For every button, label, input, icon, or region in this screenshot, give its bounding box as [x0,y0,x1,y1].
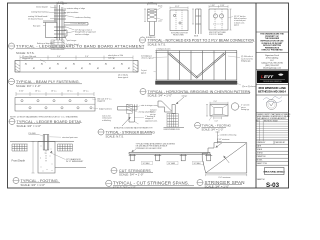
detail 8 drawing: cut stringers / tread attachment [106,142,212,189]
svg-text:SCALE: 3/4" = 1'-0": SCALE: 3/4" = 1'-0" [119,173,143,177]
svg-text:existing floor framing: existing floor framing [31,11,48,14]
ground hatch left [12,144,28,151]
anchor dashed [45,150,47,161]
svg-text:beam typical: beam typical [118,76,129,79]
detail 4 drawing: notched 6x6 post to 2 ply beam connection [140,2,256,46]
right leader labels [61,8,78,44]
svg-text:rim board of house: rim board of house [28,18,43,20]
svg-text:5 1/2": 5 1/2" [175,6,180,8]
detail 9 drawing: stringer span stair profile [197,132,247,189]
svg-text:1'-0": 1'-0" [215,120,219,122]
svg-text:SCALE: 3/4" = 1'-0": SCALE: 3/4" = 1'-0" [202,128,224,131]
svg-text:2'-0": 2'-0" [85,56,89,58]
svg-text:SCALE: 3/4" = 1'-0": SCALE: 3/4" = 1'-0" [16,84,40,88]
svg-text:chevron, typical: chevron, typical [141,57,154,60]
revision table [256,120,289,141]
svg-text:5 1/2": 5 1/2" [149,2,154,4]
info rows [256,141,289,166]
left label [102,115,112,121]
svg-text:SCALE: 3/4" = 1'-0": SCALE: 3/4" = 1'-0" [17,124,41,128]
bolt symbols [54,10,66,38]
svg-text:2'-0": 2'-0" [214,101,218,103]
svg-text:info@sigdesign.com: info@sigdesign.com [263,68,281,70]
existing floor joist box [46,23,58,38]
post above/into footing [42,135,44,151]
svg-text:stringer: stringer [182,94,188,97]
bolts: staggered circles [21,100,92,109]
second arrow [224,156,230,163]
below dim [214,117,222,119]
detail 4 title [140,37,256,46]
svg-text:joist insulation: joist insulation [66,11,78,14]
svg-text:2'-0": 2'-0" [57,56,61,58]
svg-text:4 1/2": 4 1/2" [58,2,63,4]
band board / ledger vertical assembly [56,5,58,40]
ground extension line [55,166,86,168]
svg-text:typical: typical [141,71,147,74]
svg-text:1 3/4": 1 3/4" [211,5,216,7]
svg-text:SCALE: N.T.S.: SCALE: N.T.S. [16,51,35,55]
svg-text:16" o.c.: 16" o.c. [83,90,90,92]
anchor label with leader [50,153,66,160]
bottom dim [206,174,247,176]
stringer side bar [118,106,138,108]
detail 7 drawing: footing elevation and plan [150,94,250,131]
svg-text:SCALE: 3/4" = 1'-0": SCALE: 3/4" = 1'-0" [205,185,229,189]
ground hatch right [58,144,73,151]
hatched bearing block [127,104,133,113]
svg-text:NOTE: 1/2 INCH GALVANIZED THRO: NOTE: 1/2 INCH GALVANIZED THROUGH BOLT A… [10,116,79,119]
svg-text:or blocking: or blocking [102,120,111,122]
joist bay rectangle, double top edge [156,50,238,52]
svg-text:STRINGER OR LEDGER STRIP: STRINGER OR LEDGER STRIP [136,148,163,150]
frost depth dim [32,142,35,174]
title block [256,32,291,189]
svg-text:DESIGN BUILD REMODEL: DESIGN BUILD REMODEL [263,81,282,83]
svg-text:5 1/2": 5 1/2" [19,90,24,92]
dims between stringers [143,162,202,165]
svg-text:FRONT VIEW: FRONT VIEW [173,35,184,37]
svg-text:STRUCTURAL DETAILS: STRUCTURAL DETAILS [263,170,285,173]
masonry hatch below [51,40,64,50]
svg-text:at midspan of joists: at midspan of joists [156,47,171,50]
note box text [136,142,176,149]
svg-text:UNDISTURBED SOIL: UNDISTURBED SOIL [164,129,181,131]
throat label [217,139,230,143]
project address [258,86,286,93]
right labels with leaders [134,106,144,118]
svg-text:footing typ.: footing typ. [241,108,250,111]
view D: plan with thru bolts [209,5,232,36]
deck boards line [129,152,210,154]
dimension line above beam [20,56,133,60]
left leader labels [43,7,57,26]
joist hanger [64,30,67,36]
svg-text:deck joist: deck joist [78,22,86,25]
contact paragraph [261,54,284,70]
right labels [92,99,98,109]
seal circle [267,100,277,110]
deck joist to right [64,22,88,24]
svg-text:bridging typ.: bridging typ. [241,60,251,63]
bottom line above beam [156,79,238,81]
view A: post elevation with notch [144,2,163,38]
svg-text:TYPICAL - FOOTING: TYPICAL - FOOTING [202,124,232,128]
svg-text:pier typ.: pier typ. [150,113,157,116]
detail 10 drawing: footing with frost depth [10,133,86,187]
svg-text:SCALE: 3/4" = 1'-0": SCALE: 3/4" = 1'-0" [113,185,136,189]
svg-text:TYPICAL - LEDGER BOARD DETAIL: TYPICAL - LEDGER BOARD DETAIL [17,120,83,124]
detail 2 drawing: beam ply fastening [9,54,139,88]
svg-text:W/ 12" EMBEDMENT: W/ 12" EMBEDMENT [66,161,84,163]
svg-text:JOB NO: JOB NO [257,153,264,155]
svg-text:6'-0" maximum: 6'-0" maximum [219,177,231,179]
svg-text:REVISION / ISSUE: REVISION / ISSUE [264,120,278,122]
svg-text:floor joist: floor joist [33,24,41,27]
svg-text:CHECKED BY: CHECKED BY [275,142,286,144]
detail 3 drawing: ledger board fastening pattern [9,90,113,128]
concrete footing with speckles [38,142,55,174]
sheet border frame [8,3,289,188]
detail 6 drawing: stringer bearing [98,104,158,138]
svg-text:SHEET TITLE: SHEET TITLE [257,163,267,165]
svg-text:interior drywall: interior drywall [36,6,48,9]
detail 5 drawing: horizontal bridging in chevron pattern [140,47,256,97]
svg-text:exterior siding w/ edge: exterior siding w/ edge [67,7,85,10]
svg-text:SCALE: 3/4" = 1'-0": SCALE: 3/4" = 1'-0" [21,183,45,187]
hatched end caps [15,61,138,73]
svg-text:SHEET NO: SHEET NO [257,179,266,181]
svg-text:FOR 2 PLY BEAM: FOR 2 PLY BEAM [209,33,223,36]
detail 9 title [197,180,245,189]
detail 1 title [9,43,145,55]
svg-text:beam: beam [158,6,163,8]
centerline of bearing [217,132,219,144]
left labels [154,57,168,72]
svg-text:SCALE: N.T.S.: SCALE: N.T.S. [148,42,167,46]
svg-text:TYPICAL - LEDGER BOARD TO BAND: TYPICAL - LEDGER BOARD TO BAND BOARD ATT… [16,43,145,48]
detail 10 title [13,178,60,188]
svg-text:typical: typical [234,24,239,27]
svg-text:post: post [159,20,163,23]
dimension line above [16,92,94,96]
dividers [256,32,289,113]
svg-text:ledger fasteners: ledger fasteners [99,107,112,110]
svg-text:Frost Depth: Frost Depth [12,159,26,163]
svg-text:S-03: S-03 [266,182,280,189]
svg-text:16" o.c.: 16" o.c. [35,90,42,92]
fastener marks staggered [25,63,130,69]
svg-text:PERMIT NO: PERMIT NO [257,156,267,158]
title 8b: cut stringer spans [106,180,194,189]
detail 1 drawing: ledger board to band board attachment [9,2,145,55]
dim above [57,2,67,5]
detail 3 title [9,119,82,129]
svg-text:joist hanger: joist hanger [66,39,77,42]
ground line [164,126,185,128]
detail 7 title [195,122,232,131]
beam at bottom (dark band) [156,81,238,84]
company logo black bar [257,71,288,84]
svg-text:throat: throat [217,140,222,143]
chevron V bridging (double lines) [168,53,226,78]
stair profile [202,143,247,173]
certification text [257,113,291,120]
svg-text:ATTACH BLOCKING AT EACH STRING: ATTACH BLOCKING AT EACH STRINGER TYP. [114,126,153,129]
view B: front view square [170,6,188,36]
stringer T sections [129,154,213,161]
svg-text:approved conn.: approved conn. [145,120,158,122]
left label [150,109,157,116]
svg-text:SCALE: N.T.S.: SCALE: N.T.S. [106,135,125,139]
detail 5 title [140,89,251,98]
svg-text:(2)x or (3)x beam: (2)x or (3)x beam [242,86,256,88]
svg-text:staggered: staggered [97,100,105,103]
signature scribble [263,97,282,103]
svg-text:16" o.c.: 16" o.c. [67,90,74,92]
svg-text:STRICTLY PROHIBITED: STRICTLY PROHIBITED [261,50,283,52]
detail 2 title [9,79,83,89]
ledger band, two rows [15,98,95,112]
view C: side elevation narrow [192,9,201,38]
beam body [15,61,138,73]
arrow from upper right [176,97,184,104]
svg-text:TYPICAL - CUT STRINGER SPANS.: TYPICAL - CUT STRINGER SPANS. [113,181,189,186]
svg-text:centerline of bearing: centerline of bearing [220,133,236,136]
svg-text:washers at ledger: washers at ledger [75,33,90,36]
svg-text:MODEL: MODEL [257,160,263,162]
sheet title box [265,168,285,175]
svg-text:stair to stringer conn.: stair to stringer conn. [141,104,158,107]
ground line [10,141,74,143]
svg-text:SCALE: 3/4" = 1'-0": SCALE: 3/4" = 1'-0" [148,93,172,97]
right note block [228,15,247,27]
svg-text:structural post conn.: structural post conn. [62,136,79,139]
svg-text:BETHESDA MD 20814: BETHESDA MD 20814 [258,89,286,93]
svg-text:1 3/4": 1 3/4" [220,5,225,7]
disclaimer paragraph [260,33,284,52]
post label [50,136,62,138]
hatched pier [167,114,178,128]
leader arrows [122,117,131,126]
svg-text:nails typ.: nails typ. [108,56,116,59]
svg-text:continuous flashing: continuous flashing [75,16,90,19]
elevation: stringer step on pier [158,101,172,112]
svg-text:EVY: EVY [264,74,274,79]
plan view [206,102,228,116]
joists [156,51,237,81]
svg-text:staggered typ.: staggered typ. [22,57,34,60]
right labels [228,56,241,85]
svg-text:16" o.c.: 16" o.c. [51,90,58,92]
post below [128,113,130,122]
detail 6 title [98,129,155,139]
